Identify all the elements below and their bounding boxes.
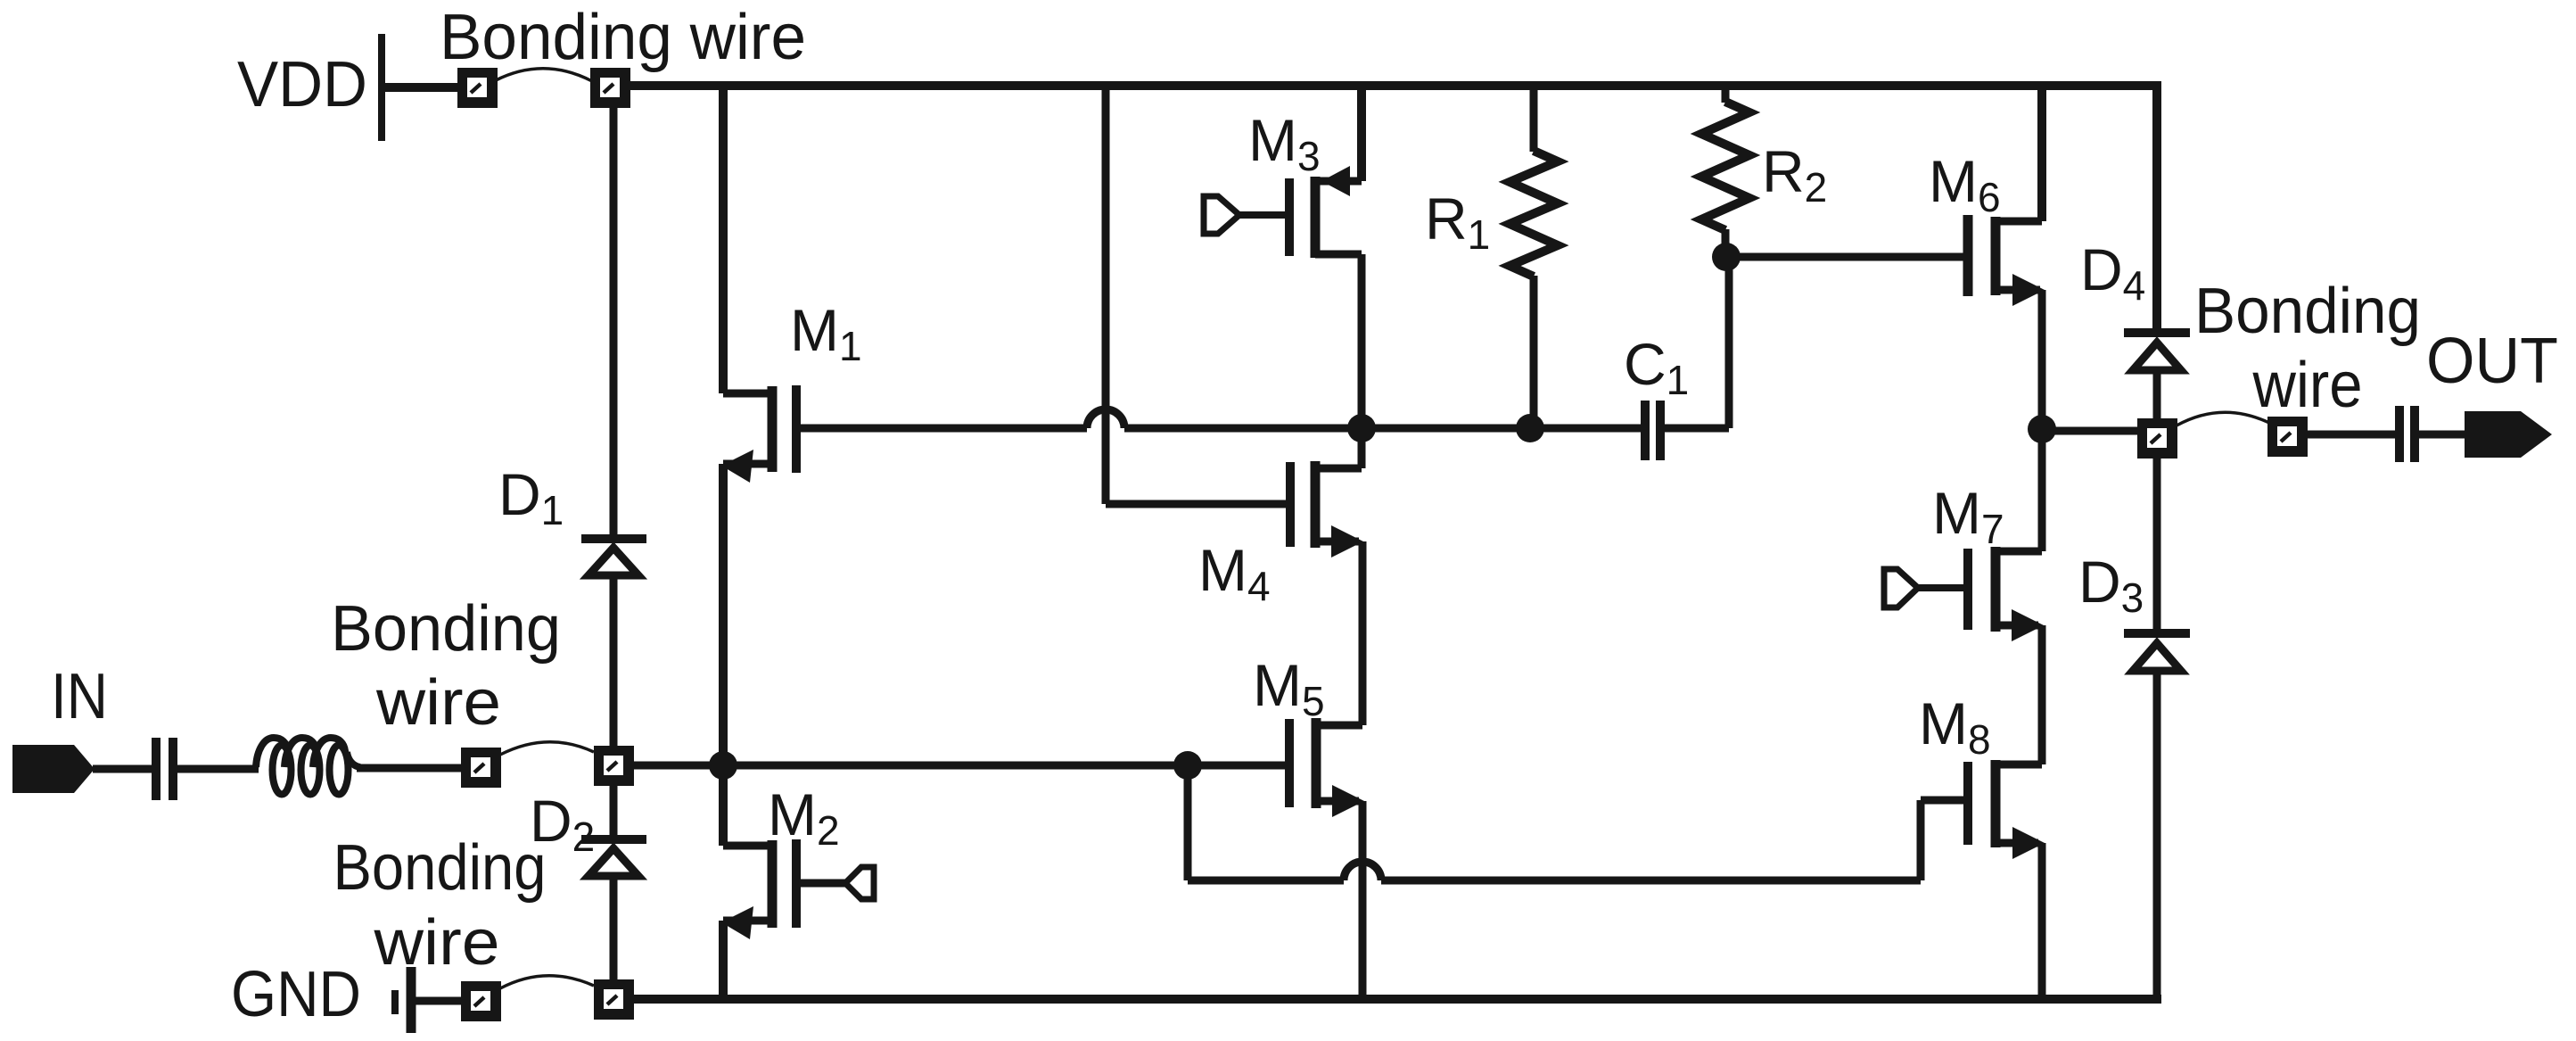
svg-text:GND: GND: [231, 959, 361, 1030]
svg-text:Bonding: Bonding: [333, 832, 547, 904]
svg-text:IN: IN: [51, 661, 108, 732]
svg-text:Bonding: Bonding: [2194, 276, 2421, 347]
svg-text:wire: wire: [375, 667, 501, 739]
svg-text:wire: wire: [373, 907, 499, 979]
svg-text:VDD: VDD: [237, 49, 367, 120]
svg-text:wire: wire: [2252, 350, 2363, 421]
svg-text:OUT: OUT: [2426, 326, 2558, 397]
svg-text:Bonding wire: Bonding wire: [440, 2, 806, 73]
svg-text:Bonding: Bonding: [331, 593, 561, 665]
